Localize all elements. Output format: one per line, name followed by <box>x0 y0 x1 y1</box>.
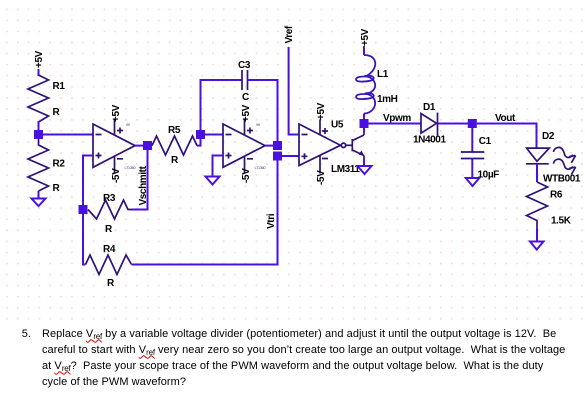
svg-text:C: C <box>242 92 249 103</box>
svg-text:R: R <box>171 155 179 166</box>
wire Vref to comparator inverting input <box>289 47 299 135</box>
wire R4 to Vtri <box>132 160 278 265</box>
wire L1 to Vpwm node <box>363 114 365 124</box>
light emission arrows of D2 <box>554 147 576 174</box>
resistor R1 <box>28 75 65 122</box>
svg-text:R3: R3 <box>103 193 116 204</box>
wire +5V to R1 <box>38 69 40 76</box>
resistor R5 <box>152 125 197 166</box>
ground <box>358 166 372 174</box>
wire R6 to ground <box>536 227 538 241</box>
svg-text:U5: U5 <box>331 120 344 131</box>
node divider junction <box>34 130 43 139</box>
wire node to opamp U1 inverting input <box>39 134 94 136</box>
diode D1 <box>413 102 446 146</box>
svg-text:+5V: +5V <box>111 104 122 122</box>
svg-text:R2: R2 <box>53 159 66 170</box>
node integrator input junction <box>196 130 205 139</box>
node Vpwm junction <box>360 119 369 128</box>
svg-text:WTB001: WTB001 <box>543 174 581 185</box>
node Vtri junction <box>273 152 282 161</box>
wire Vschmitt output down to R3 <box>132 150 148 210</box>
svg-text:Vpwm: Vpwm <box>383 113 411 124</box>
svg-text:R1: R1 <box>53 81 66 92</box>
wire R1 to node <box>38 121 40 135</box>
wire Vtri to comparator input <box>278 155 300 157</box>
net Vref label <box>284 25 295 43</box>
svg-text:R: R <box>107 278 115 289</box>
resistor R6 <box>527 182 572 227</box>
resistor R3 <box>88 193 132 235</box>
svg-text:C1: C1 <box>479 136 492 147</box>
capacitor C3 <box>238 60 251 103</box>
wire collector to Vpwm node <box>363 131 365 135</box>
wire R2 to ground <box>38 191 40 199</box>
capacitor C1 <box>461 136 499 181</box>
svg-text:LT1360: LT1360 <box>255 166 266 170</box>
svg-text:R: R <box>53 107 61 118</box>
node Vschmitt output junction <box>143 141 152 150</box>
transistor output stage of U5 <box>346 135 364 156</box>
wire feedback down to R4 <box>83 214 86 265</box>
net Vtri label <box>266 213 277 229</box>
wire integrator input <box>205 134 223 136</box>
svg-text:-5V: -5V <box>241 168 252 183</box>
ground <box>530 242 544 250</box>
wire D1 to Vout node <box>438 123 473 125</box>
resistor R2 <box>28 139 65 194</box>
wire emitter to ground <box>363 156 365 160</box>
wire C3 feedback right <box>248 80 278 141</box>
svg-text:R4: R4 <box>103 244 116 255</box>
svg-text:Vref: Vref <box>284 25 295 43</box>
svg-text:+5V: +5V <box>316 102 327 120</box>
net Vpwm label <box>383 113 411 124</box>
svg-text:LT1360: LT1360 <box>125 166 136 170</box>
svg-text:1N4001: 1N4001 <box>413 135 446 146</box>
wire +5V to L1 <box>363 46 365 55</box>
svg-text:R6: R6 <box>550 190 563 201</box>
svg-text:-5V: -5V <box>111 168 122 183</box>
net Vschmitt label <box>138 165 149 205</box>
ground <box>32 199 46 207</box>
node Vout junction <box>468 119 477 128</box>
wire Vpwm to D1 <box>369 123 422 125</box>
svg-text:1.5K: 1.5K <box>551 216 572 227</box>
net Vout label <box>495 113 516 124</box>
LED D2 <box>526 131 581 185</box>
ground <box>466 178 480 186</box>
svg-text:D2: D2 <box>542 131 555 142</box>
wire feedback vertical <box>83 156 93 210</box>
wire D2 to R6 <box>536 164 538 182</box>
svg-text:R: R <box>105 224 113 235</box>
wire C3 feedback left <box>201 80 243 130</box>
op-amp U1 Vschmitt <box>93 104 135 183</box>
svg-text:99: 99 <box>126 123 130 127</box>
comparator U5 LM311 <box>299 102 360 185</box>
wire integrator noninverting to ground <box>213 156 224 177</box>
wire Vout to D2 <box>477 124 537 149</box>
wire R5 to integrator input <box>197 135 201 146</box>
svg-text:1mH: 1mH <box>377 94 398 105</box>
wire Vout node down to C1 <box>471 128 473 152</box>
svg-text:Vtri: Vtri <box>266 213 277 229</box>
inductor L1 <box>356 55 398 114</box>
node integrator output junction <box>273 141 282 150</box>
svg-text:D1: D1 <box>423 102 436 113</box>
op-amp U2 integrator <box>223 104 265 183</box>
svg-text:L1: L1 <box>377 69 389 80</box>
+5V supply label for L1 <box>360 28 371 46</box>
wire integrator output <box>265 145 278 147</box>
svg-text:R5: R5 <box>168 125 181 136</box>
svg-text:10µF: 10µF <box>478 170 500 181</box>
node R3 to feedback junction <box>79 205 88 214</box>
svg-text:99: 99 <box>256 123 260 127</box>
ground <box>206 177 220 185</box>
svg-text:R: R <box>53 183 61 194</box>
svg-text:+5V: +5V <box>241 104 252 122</box>
svg-text:C3: C3 <box>238 60 251 71</box>
svg-text:+5V: +5V <box>360 28 371 46</box>
svg-text:-5V: -5V <box>316 170 327 185</box>
+5V supply label left rail <box>34 50 45 68</box>
resistor R4 <box>86 244 132 289</box>
wire C1 to ground <box>471 159 473 179</box>
svg-text:+5V: +5V <box>34 50 45 68</box>
wire opamp U1 output <box>135 145 148 147</box>
svg-text:Vout: Vout <box>495 113 516 124</box>
